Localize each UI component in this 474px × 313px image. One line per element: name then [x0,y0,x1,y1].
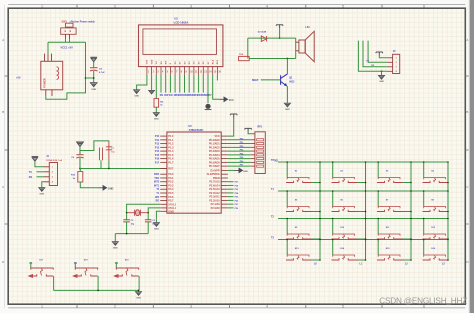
svg-text:BEEP: BEEP [252,80,259,82]
svg-text:AT89C51RC: AT89C51RC [189,128,204,132]
wire capacitor C8 to ground [93,71,95,82]
microcontroller U5 right pin P2.6/A14 [221,184,228,186]
wire LCD pin1 to ground [137,75,147,90]
LCD pin 12 stub [198,67,200,75]
ground arrow port reset [99,186,107,190]
resistor pack RP1 pin 8 stub [251,165,255,167]
wire TXD to J4 pin2 [37,171,44,173]
svg-text:GND: GND [154,118,159,120]
node key S7 column junction [410,211,412,213]
connector J6 pin 1 stub [387,57,393,59]
wire keypad column 2 [365,162,367,261]
key switch S14 stem [343,256,345,260]
ground bell symbol [205,104,210,109]
wire key S5 to column [312,211,321,213]
svg-text:LCD 1602A: LCD 1602A [174,21,189,25]
node key S2 column junction [365,182,367,184]
connector J4 pin 1 stub [44,166,50,168]
key switch S3 stem [388,178,390,182]
microcontroller U5 right pin P2.1/A9 [221,203,228,205]
key switch S1 stem [297,178,299,182]
svg-text:P2.3/A11: P2.3/A11 [209,196,220,199]
wire LCD pin 13 to net label [202,75,204,93]
microcontroller U5 right pin P2.4/A12 [221,192,228,194]
svg-text:P1.2: P1.2 [168,143,174,146]
node key S12 column junction [447,238,449,240]
wire RXD to J4 pin3 [37,176,44,178]
microcontroller U5 right pin VCC [221,135,228,137]
speaker LS1 body [299,40,305,53]
svg-text:P0.1/AD1: P0.1/AD1 [209,143,220,146]
wire LCD pin 11 to net label [193,75,195,93]
svg-text:TXD: TXD [154,178,159,180]
key switch S4 stem [434,178,436,182]
resistor pack RP1 pin 1 stub [251,139,255,141]
connector J4 pin 4 stub [44,181,50,183]
wire collector drop [286,59,288,74]
node crystal right [147,212,149,214]
svg-text:P2.6/A14: P2.6/A14 [209,184,220,187]
wire key S2 to column [357,182,366,184]
zone tick top [305,5,307,9]
wire keypad row T0 [278,161,448,163]
svg-text:P14: P14 [155,150,160,153]
LCD pin 6 stub [169,67,171,75]
zone tick right [465,149,468,151]
key switch S14 bridge [333,255,355,257]
node keypad crossing [365,239,367,241]
wire button K2 riser [74,262,76,268]
node key S13 column junction [319,259,321,261]
svg-text:RP1: RP1 [258,127,263,129]
svg-text:P3.0: P3.0 [168,173,174,176]
node keypad crossing [410,239,412,241]
connector J6 pin 4 stub [387,70,393,72]
node collector junction [287,58,289,60]
capacitor C8 [90,68,98,71]
outer border line top [8,4,465,6]
svg-text:TXD: TXD [274,161,279,163]
key switch S2 stem [343,178,345,182]
node RST junction right [108,168,110,170]
svg-text:1: 1 [41,5,43,9]
key switch S16 stem [434,256,436,260]
zone tick bottom [305,304,307,308]
svg-text:GND: GND [108,187,114,190]
wire U5 P0.6 to resistor pack [228,161,251,163]
svg-text:P3.5: P3.5 [168,192,174,195]
LCD pin 3 stub [155,67,157,75]
zone tick top [152,5,154,9]
wire speaker top rail [248,37,296,39]
wire U5 P2.4 stub [228,192,234,194]
wire crystal ground rail [115,233,148,235]
capacitor C9 [76,155,83,158]
key switch S11 stem [388,235,390,239]
microcontroller U5 left pin P1.2 [160,143,167,145]
wire key S1 riser [286,162,288,178]
LCD pin 14 stub [207,67,209,75]
node keypad crossing [365,218,367,220]
svg-text:4: 4 [266,304,268,308]
svg-text:VCC: VCC [214,135,219,138]
svg-text:6: 6 [423,5,425,9]
wire key S6 to column [357,211,366,213]
resistor R19 [78,172,83,183]
LCD pin 16 stub [216,67,218,75]
node RST junction left [79,168,81,170]
key switch S7 bridge [378,207,400,209]
svg-text:GND: GND [285,109,290,111]
push button K1 stem [41,269,43,276]
LCD pin 2 stub [151,67,153,75]
svg-text:INT1: INT1 [154,185,160,187]
node key S16 row junction [423,239,425,241]
wire keypad row T2 [278,218,448,220]
LCD U2 screen rectangle [143,29,217,55]
key switch S9 bridge [287,234,309,236]
svg-text:VDD: VDD [151,59,153,64]
wire key S16 riser [423,240,425,256]
wire power loop left leg [47,42,49,53]
wire LCD pin 14 to net label [207,75,209,93]
microcontroller U5 left pin XTAL1 [160,207,167,209]
svg-text:P0.6/AD6: P0.6/AD6 [209,161,220,164]
wire LCD pin3 to resistor R2 [155,75,157,99]
node key S3 row junction [377,161,379,163]
zone tick top [229,5,231,9]
wire key S14 riser [332,240,334,256]
svg-text:P0.5/AD5: P0.5/AD5 [209,158,220,161]
push button K1 leads with arrow [29,274,53,277]
svg-text:BLA: BLA [212,59,215,64]
wire U5 P2.7 stub [228,181,234,183]
svg-text:9012: 9012 [289,81,295,83]
resistor pack RP1 element 5 [257,154,264,156]
microcontroller U5 left pin P1.1 [160,139,167,141]
svg-text:3: 3 [190,5,192,9]
wire LCD pin15 to VCC arrow [213,75,220,100]
key switch S5 bridge [287,207,309,209]
key switch S8 stem [434,207,436,211]
wire LCD pin 8 to net label [179,75,181,93]
svg-text:P3.6: P3.6 [168,196,174,199]
microcontroller U5 left pin P1.0 [160,135,167,137]
node key S7 row junction [377,190,379,192]
node key S9 row junction [286,218,288,220]
microcontroller U5 right pin P0.7/AD7 [221,165,228,167]
wire keypad row T3 [278,239,448,241]
svg-text:P1.5: P1.5 [168,154,174,157]
push button K1 bridge [31,268,53,270]
resistor pack RP1 pin 2 stub [251,143,255,145]
svg-text:P2.1/A9: P2.1/A9 [211,203,221,206]
wire base rail [249,58,296,60]
ground LCD contrast [153,113,159,117]
switch SW1 pins [65,34,67,39]
microcontroller U5 body [167,132,221,213]
wire power to capacitor C9 [79,147,81,155]
node key S14 column junction [365,259,367,261]
key switch S15 bridge [378,255,400,257]
power VCC symbol above U5 [230,114,237,118]
node key S3 column junction [410,182,412,184]
node key S11 row junction [377,218,379,220]
wire common bus to ground [138,290,140,291]
microcontroller U5 right pin P0.4/AD4 [221,154,228,156]
microcontroller U5 right pin P0.1/AD1 [221,143,228,145]
wire key S8 riser [423,191,425,207]
wire key S9 to column [312,238,321,240]
wire VCC to J6 pin1 [379,56,387,58]
svg-text:CSDN @ENGLISH_HHZ: CSDN @ENGLISH_HHZ [379,297,467,306]
outer border line left [4,5,6,308]
resistor pack RP1 element 1 [257,139,264,141]
wire LCD pin 10 to net label [188,75,190,93]
push button K3 leads with arrow [114,274,138,277]
crystal Y1 [127,210,149,216]
node keypad crossing [410,218,412,220]
svg-text:VSS: VSS [147,59,149,64]
svg-text:GND: GND [134,96,139,98]
transformer T1 top pins [44,54,46,62]
ground bottom buttons [135,292,141,296]
node keypad crossing [319,190,321,192]
power VCC symbol RP1 [245,128,252,132]
svg-text:P0.2/AD2: P0.2/AD2 [209,146,220,149]
key switch S12 bridge [424,234,446,236]
node keypad crossing [319,161,321,163]
reset button contacts [100,148,103,161]
microcontroller U5 right pin P0.2/AD2 [221,146,228,148]
key switch S7 stem [388,207,390,211]
push button K2 leads with arrow [73,274,97,277]
key switch S3 leads [377,181,403,183]
microcontroller U5 left pin GND [160,210,167,212]
svg-text:EA/VPP: EA/VPP [211,169,221,172]
microcontroller U5 left pin P3.5 [160,192,167,194]
key switch S15 leads [377,258,403,260]
svg-text:D2 4148: D2 4148 [258,30,267,33]
node key S15 row junction [377,239,379,241]
node power loop junction [85,77,87,79]
wire buttons common bus [54,289,140,291]
node capacitor junction [93,77,95,79]
power VCC symbol speaker [276,25,283,29]
LCD pin 10 stub [188,67,190,75]
wire power loop right leg [46,42,86,99]
node crystal left [126,212,128,214]
microcontroller U5 left pin P3.0 [160,173,167,175]
zone tick left [5,223,9,225]
power symbol reset top [77,142,84,147]
wire U5 P0.1 to resistor pack [228,143,251,145]
capacitor C3 [145,220,152,222]
wire crystal right to capacitor C3 [147,213,149,220]
key switch S6 stem [343,207,345,211]
key switch S12 leads [423,237,449,239]
microcontroller U5 right pin EA/VPP [221,169,228,171]
resistor pack RP1 pin 4 stub [251,150,255,152]
wire capacitor C3 to ground rail [147,222,149,234]
connector J6 body [393,54,400,73]
wire LCD pin 5 to net label [165,75,167,93]
node key S12 row junction [423,218,425,220]
zone tick bottom [76,304,78,308]
wire keypad row T1 [278,190,448,192]
microcontroller U5 right pin P2.3/A11 [221,196,228,198]
wire reset button top [80,141,109,151]
svg-text:PSEN: PSEN [213,177,220,180]
key switch S2 leads [332,181,358,183]
node key S8 row junction [423,190,425,192]
svg-text:5: 5 [342,304,344,308]
svg-text:4.7uF: 4.7uF [99,71,105,74]
LCD pin 9 stub [184,67,186,75]
wire VCC to J4 pin1 [35,161,44,167]
wire key S14 to column [357,259,366,261]
wire VCC to top rail [279,28,281,38]
wire key S3 riser [377,162,379,178]
wire LCD pin 4 to net label [160,75,162,93]
svg-text:GND: GND [113,247,118,249]
wire power loop top [48,41,86,43]
wire J6 riser 3 [368,41,387,63]
node key S10 column junction [365,238,367,240]
power VCC symbol J4 [32,157,39,162]
connector J4 pin 3 stub [44,176,50,178]
node ground rail left [126,233,128,235]
wire U5 P2.1 stub [228,203,234,205]
svg-text:RXD: RXD [154,174,159,176]
microcontroller U5 right pin P0.3/AD3 [221,150,228,152]
power VCC symbol J6 [376,52,383,56]
svg-text:POWER: POWER [44,78,47,88]
wire capacitor C2 to ground rail [126,222,128,234]
push button K3 stem [126,269,128,276]
microcontroller U5 left pin P1.3 [160,146,167,148]
wire U5 P2.0 stub [228,207,234,209]
zone tick left [5,149,9,151]
wire U5 EA to ground arrow [228,169,235,171]
svg-text:RX: RX [29,176,33,179]
key switch S9 stem [297,235,299,239]
resistor pack RP1 element 8 [257,165,264,167]
wire key S11 to column [403,238,412,240]
node common bus right junction [138,290,140,292]
wire J4 pin4 to ground [42,182,44,188]
wire key S15 to column [403,259,412,261]
svg-text:RD: RD [156,201,160,203]
connector J4 body [49,163,57,186]
ground LCD pin1 [134,90,140,94]
svg-text:GND: GND [379,81,384,83]
svg-text:CON4-2.54_1x4: CON4-2.54_1x4 [46,159,63,162]
wire RST to MCU [80,168,167,170]
microcontroller U5 left pin P1.6 [160,158,167,160]
wire U5 P2.2 stub [228,199,234,201]
connector J4 pin 2 stub [44,171,50,173]
key switch S1 bridge [287,178,309,180]
svg-text:P16: P16 [155,159,160,161]
svg-text:P3.7: P3.7 [168,200,174,203]
wire U5 VCC pin to VCC symbol [228,118,234,137]
resistor pack RP1 pin 3 stub [251,146,255,148]
wire LCD pin 12 to net label [198,75,200,93]
node keypad crossing [319,218,321,220]
resistor R2 [154,99,159,108]
LCD pin 4 stub [160,67,162,75]
node common bus junction [97,290,99,292]
svg-text:2: 2 [114,304,116,308]
svg-text:GND: GND [136,297,141,299]
svg-text:P0.0/AD0: P0.0/AD0 [209,139,220,142]
svg-text:RS: RS [160,94,164,97]
svg-text:P3.4: P3.4 [168,188,174,191]
wire U5 XTAL2 to crystal [127,204,161,212]
wire keypad column 1 [319,162,321,261]
wire VCC to capacitor C8 [93,62,95,68]
svg-text:P3.2: P3.2 [168,181,174,184]
microcontroller U5 left pin RST [160,168,167,170]
key switch S2 bridge [333,178,355,180]
wire key S3 to column [403,182,412,184]
wire U5 P2.3 stub [228,196,234,198]
resistor pack RP1 pin 5 stub [251,154,255,156]
node key S15 column junction [410,259,412,261]
resistor pack RP1 body [255,132,265,174]
microcontroller U5 right pin P2.2/A10 [221,199,228,201]
wire button K3 riser [115,262,117,268]
wire key S11 riser [377,219,379,235]
microcontroller U5 right pin P2.0/A8 [221,207,228,209]
node key S9 column junction [319,238,321,240]
key switch S4 leads [423,181,449,183]
power symbol LCD pin2 [149,90,155,94]
svg-text:P1.4: P1.4 [168,150,174,153]
resistor pack RP1 pin 6 stub [251,158,255,160]
ground U5 [153,223,159,227]
wire J6 to ground [381,71,383,75]
wire U5 P0.5 to resistor pack [228,158,251,160]
node key S2 row junction [332,161,334,163]
capacitor C7 vertical [106,141,112,161]
wire key S10 riser [332,219,334,235]
ground crystal [112,242,118,246]
wire button K1 to common bus [53,276,55,290]
wire U5 P0.3 to resistor pack [228,150,251,152]
LCD pin 13 stub [202,67,204,75]
svg-text:XTAL2: XTAL2 [168,203,176,206]
key switch S11 bridge [378,234,400,236]
svg-text:4: 4 [266,5,268,9]
ground power section [90,83,97,87]
wire resistor R2 to ground [155,107,157,112]
wire key S10 to column [357,238,366,240]
node keypad crossing [447,239,449,241]
svg-text:GND: GND [154,228,159,230]
svg-text:RST: RST [168,168,173,171]
resistor pack RP1 element 7 [257,161,264,163]
zone tick bottom [152,304,154,308]
node J6 ground junction [381,70,383,72]
zone tick right [465,75,468,77]
zone tick bottom [229,304,231,308]
LCD pin 7 stub [174,67,176,75]
key switch S6 leads [332,210,358,212]
key switch S12 stem [434,235,436,239]
wire speaker right leg [295,38,297,58]
